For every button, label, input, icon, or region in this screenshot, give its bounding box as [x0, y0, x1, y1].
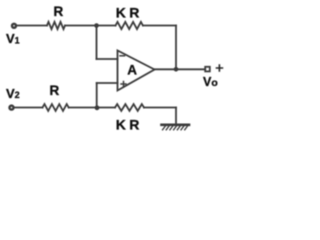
- svg-text:R: R: [50, 83, 60, 98]
- op-amp A body: [118, 51, 155, 91]
- resistor R2 (bottom R): [43, 104, 69, 111]
- svg-text:Vo: Vo: [203, 75, 218, 89]
- wire node B up to plus input: [96, 83, 98, 108]
- node output junction: [174, 67, 179, 72]
- wire R1 to KR1: [65, 25, 116, 27]
- node junction top (feedback tap): [94, 23, 99, 28]
- wire top tap down to minus input: [96, 26, 98, 60]
- svg-text:V1: V1: [6, 31, 20, 46]
- terminal V1: [12, 24, 16, 28]
- wire KR1 to corner: [143, 25, 176, 27]
- pin marker plus: [121, 82, 126, 87]
- plus sign output polarity: [217, 65, 223, 71]
- wire output: [155, 68, 206, 70]
- wire feedback vertical: [175, 26, 177, 70]
- pin marker minus: [120, 55, 125, 57]
- wire minus input: [97, 58, 118, 60]
- resistor KR1 (top KR): [116, 22, 143, 29]
- svg-text:KR: KR: [116, 117, 140, 133]
- wire ground vertical: [175, 108, 177, 125]
- wire V2 to R2: [14, 107, 43, 109]
- wire V1 to R1: [16, 25, 47, 27]
- wire KR2 to ground corner: [144, 107, 176, 109]
- wire R2 to node B: [69, 107, 115, 109]
- svg-text:R: R: [54, 4, 64, 19]
- node B junction: [95, 105, 100, 110]
- ground: [162, 125, 190, 130]
- svg-text:KR: KR: [116, 4, 140, 20]
- svg-text:V2: V2: [6, 86, 20, 101]
- svg-text:A: A: [127, 62, 137, 77]
- terminal V2: [10, 106, 14, 110]
- resistor R1 (top R): [47, 22, 65, 29]
- resistor KR2 (bottom KR): [115, 104, 144, 111]
- wire plus input: [97, 82, 118, 84]
- terminal Vo: [205, 67, 210, 72]
